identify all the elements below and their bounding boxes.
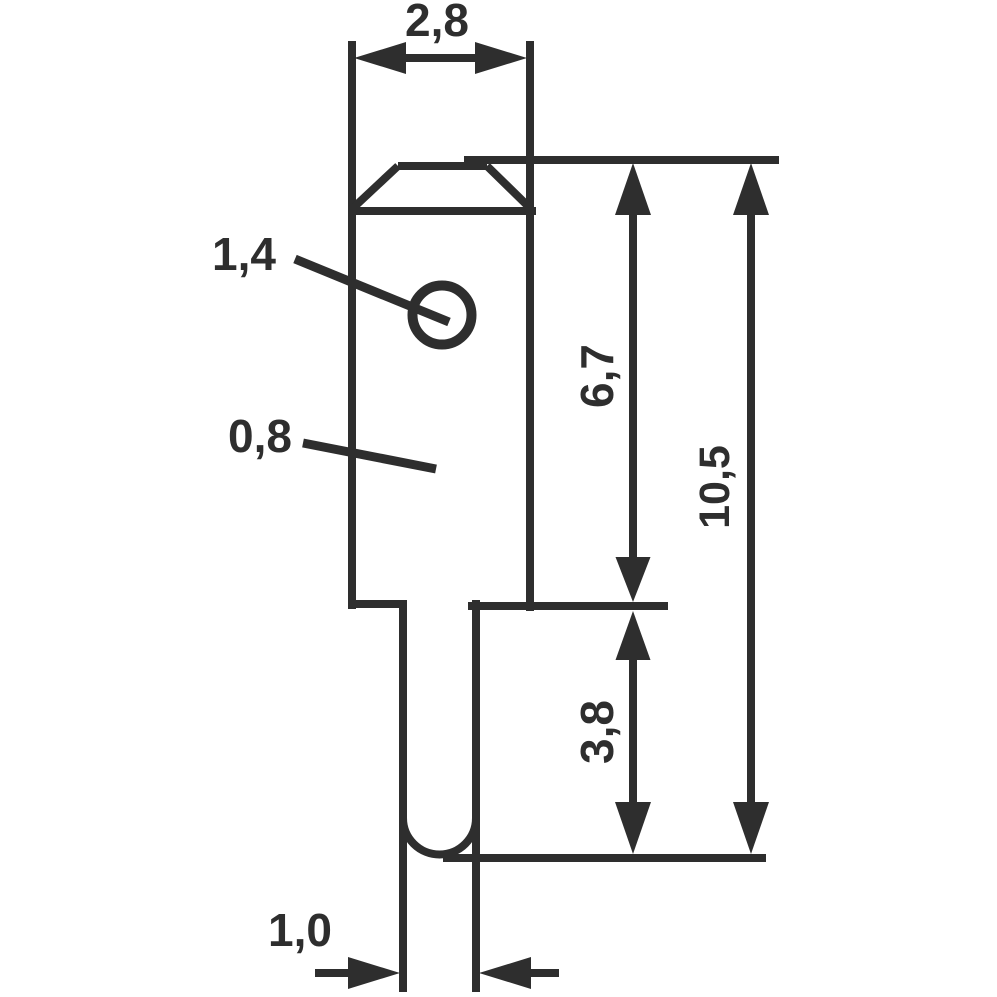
svg-text:0,8: 0,8 [228,410,292,462]
svg-text:2,8: 2,8 [405,0,469,46]
svg-text:1,4: 1,4 [212,228,276,280]
svg-text:6,7: 6,7 [571,344,623,408]
svg-text:10,5: 10,5 [691,445,739,529]
svg-text:3,8: 3,8 [571,700,623,764]
svg-text:1,0: 1,0 [268,904,332,956]
